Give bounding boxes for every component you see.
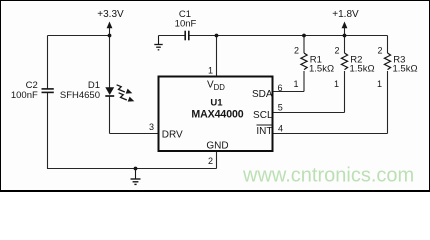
wire D1 cathode down to DRV corner (109, 97, 111, 134)
wire R1 top lead (303, 36, 305, 54)
wire R1 bottom lead (303, 71, 305, 92)
svg-text:+1.8V: +1.8V (332, 9, 359, 20)
svg-text:5: 5 (278, 103, 283, 113)
svg-text:100nF: 100nF (11, 90, 38, 101)
svg-text:DRV: DRV (162, 129, 183, 140)
wire R2 bottom lead (344, 71, 346, 113)
wire C2 bottom lead (47, 93, 49, 170)
wire R2 top lead (344, 36, 346, 54)
svg-text:1: 1 (334, 79, 339, 89)
capacitor C2 (42, 89, 54, 93)
wire bottom ground rail (48, 168, 217, 170)
resistor R1 (301, 53, 307, 70)
svg-text:1: 1 (208, 66, 213, 76)
node junction R1 top (302, 34, 306, 38)
svg-text:U1: U1 (210, 98, 223, 109)
svg-text:MAX44000: MAX44000 (191, 109, 243, 121)
svg-text:INT: INT (256, 126, 272, 137)
node junction +3.3V (108, 34, 112, 38)
wire GND pin 2 (216, 151, 218, 169)
svg-text:2: 2 (208, 156, 213, 166)
svg-text:SFH4650: SFH4650 (60, 90, 100, 101)
wire top +1.8V rail (217, 35, 388, 37)
wire R3 bottom lead (387, 71, 389, 134)
wire +3.3V rail to C2 (48, 35, 110, 37)
wire C2 top lead (47, 36, 49, 89)
node junction R2 top (343, 34, 347, 38)
svg-text:1.5kΩ: 1.5kΩ (309, 64, 334, 75)
node junction ground rail (134, 167, 138, 171)
wire SCL pin 5 (273, 112, 345, 114)
wire SDA pin 6 (273, 91, 305, 93)
svg-text:1.5kΩ: 1.5kΩ (350, 64, 375, 75)
capacitor C1 (185, 31, 189, 41)
wire VDD pin 1 (216, 36, 218, 77)
ground (main rail) (131, 169, 141, 185)
op-amp U1 MAX44000 box (159, 77, 273, 152)
svg-text:2: 2 (377, 45, 382, 55)
power +1.8V arrow (342, 22, 348, 29)
svg-text:SDA: SDA (252, 89, 273, 100)
svg-text:6: 6 (278, 83, 283, 93)
svg-text:GND: GND (206, 140, 228, 151)
svg-text:1: 1 (293, 79, 298, 89)
wire R3 top lead (387, 36, 389, 54)
wire C1 left lead to ground (159, 35, 186, 37)
svg-text:DD: DD (214, 83, 226, 92)
svg-text:1: 1 (377, 79, 382, 89)
svg-text:2: 2 (334, 45, 339, 55)
wire C1 right lead (189, 35, 217, 37)
wire INT pin 4 (273, 133, 388, 135)
svg-text:SCL: SCL (253, 110, 273, 121)
D1 emission arrow 2 (119, 93, 127, 100)
svg-text:3: 3 (149, 122, 154, 132)
svg-text:2: 2 (294, 45, 299, 55)
ground (C1) (154, 36, 162, 50)
diode D1 LED (105, 87, 114, 95)
svg-text:+3.3V: +3.3V (97, 9, 124, 20)
wire DRV pin 3 (110, 133, 159, 135)
resistor R2 (341, 53, 347, 70)
resistor R3 (384, 53, 390, 70)
power +3.3V arrow (107, 22, 113, 29)
svg-text:1.5kΩ: 1.5kΩ (393, 64, 418, 75)
D1 emission arrow 1 (117, 85, 125, 92)
node junction VDD (215, 34, 219, 38)
svg-text:4: 4 (278, 123, 283, 133)
wire +1.8V stem (344, 28, 346, 36)
svg-text:www.cntronics.com: www.cntronics.com (242, 165, 414, 187)
svg-text:10nF: 10nF (175, 18, 197, 29)
wire +3.3V stem down to D1 anode (109, 28, 111, 88)
